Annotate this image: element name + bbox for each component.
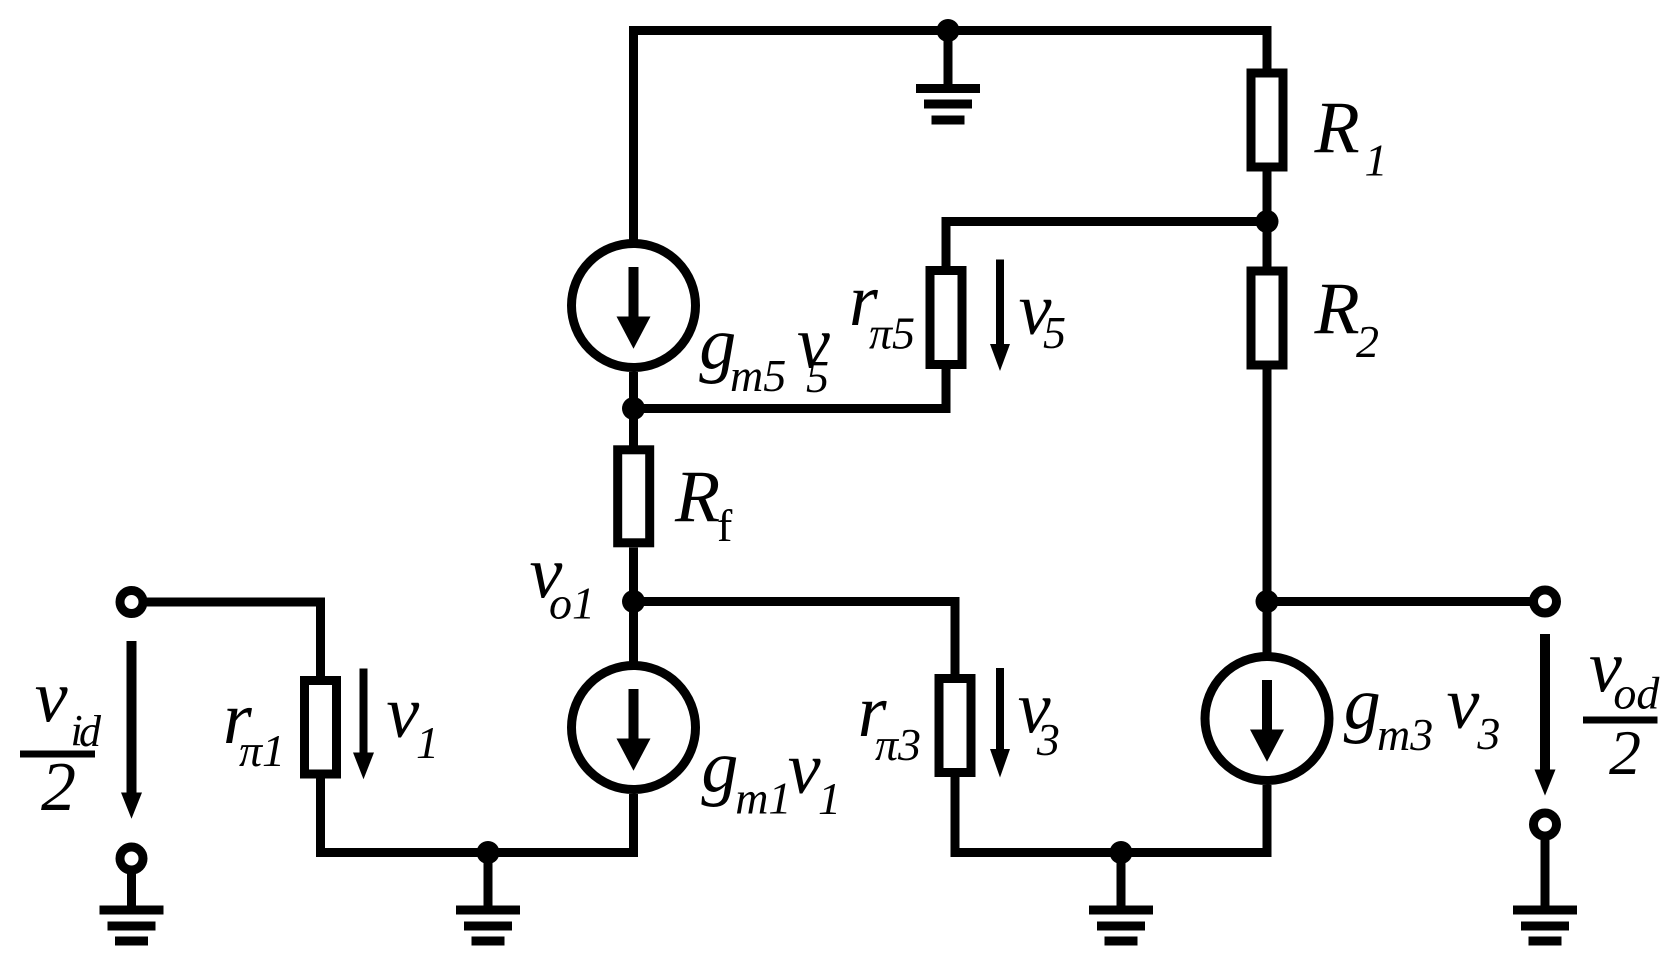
svg-text:v: v xyxy=(1447,663,1480,745)
svg-text:g: g xyxy=(701,726,738,808)
svg-text:R: R xyxy=(674,457,720,539)
svg-text:od: od xyxy=(1613,668,1660,719)
svg-text:2: 2 xyxy=(1356,316,1379,367)
svg-text:v: v xyxy=(35,657,68,739)
svg-text:v: v xyxy=(788,728,821,810)
svg-text:g: g xyxy=(1344,663,1381,745)
svg-text:m3: m3 xyxy=(1377,709,1433,760)
svg-text:π5: π5 xyxy=(869,308,915,359)
svg-text:1: 1 xyxy=(1365,135,1388,186)
svg-text:R: R xyxy=(1314,88,1360,170)
svg-text:m5: m5 xyxy=(730,350,786,401)
svg-text:d: d xyxy=(79,707,102,756)
svg-text:π3: π3 xyxy=(875,719,921,770)
svg-text:2: 2 xyxy=(1609,717,1641,788)
svg-text:5: 5 xyxy=(1043,307,1066,358)
svg-text:o1: o1 xyxy=(549,578,595,629)
svg-text:2: 2 xyxy=(41,749,76,826)
svg-text:f: f xyxy=(717,500,733,551)
svg-text:5: 5 xyxy=(806,351,829,402)
svg-text:3: 3 xyxy=(1476,708,1500,759)
svg-text:v: v xyxy=(386,672,419,754)
svg-text:R: R xyxy=(1314,269,1360,351)
svg-text:1: 1 xyxy=(416,717,439,768)
svg-text:1: 1 xyxy=(818,773,841,824)
svg-text:3: 3 xyxy=(1036,714,1060,765)
svg-text:π1: π1 xyxy=(239,725,285,776)
svg-text:m1: m1 xyxy=(735,773,791,824)
